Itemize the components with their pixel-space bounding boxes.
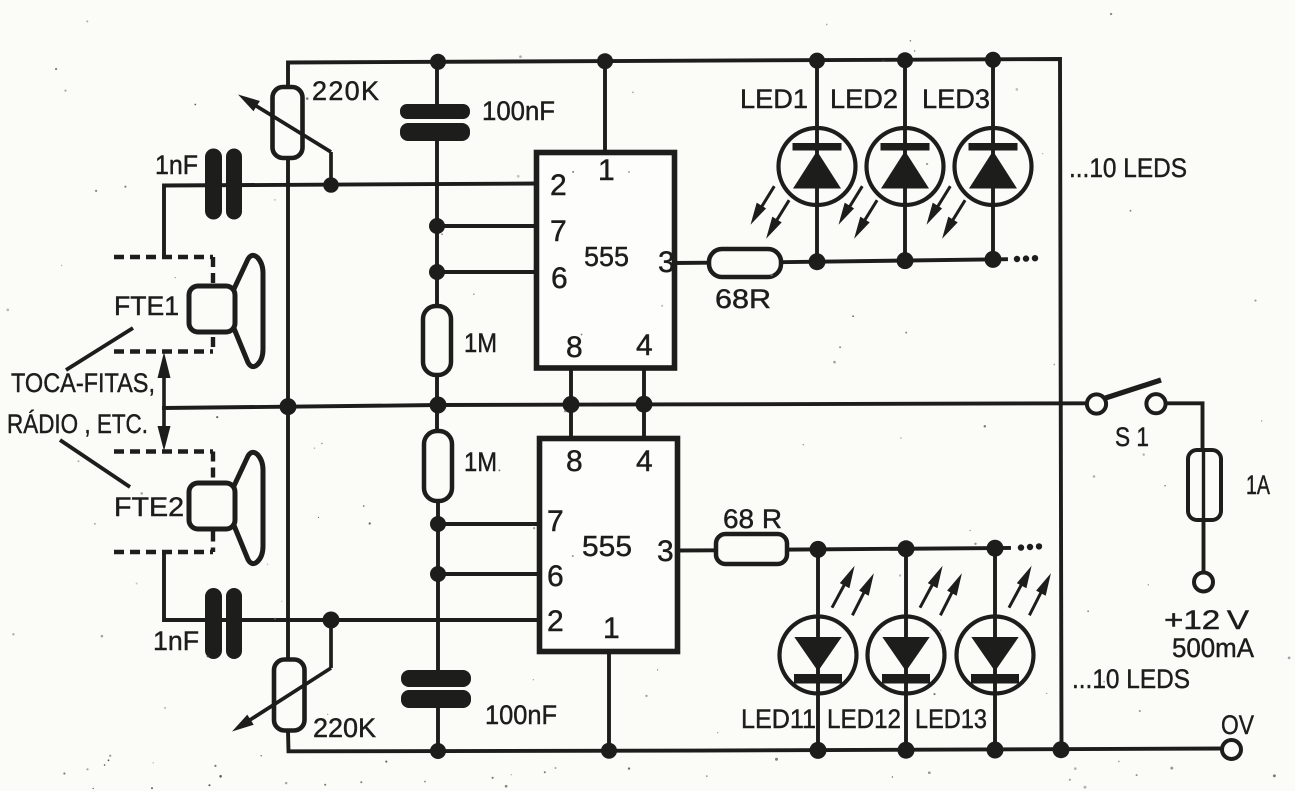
svg-text:100nF: 100nF (485, 700, 557, 730)
svg-text:555: 555 (582, 531, 632, 563)
svg-text:1A: 1A (1246, 470, 1270, 500)
svg-text:FTE2: FTE2 (114, 492, 184, 522)
svg-text:RÁDIO , ETC.: RÁDIO , ETC. (7, 409, 148, 439)
svg-text:8: 8 (566, 445, 583, 478)
svg-text:500mA: 500mA (1172, 633, 1254, 663)
svg-text:1nF: 1nF (153, 626, 199, 656)
svg-text:LED2: LED2 (830, 84, 898, 114)
svg-text:220K: 220K (312, 76, 379, 106)
svg-text:8: 8 (566, 331, 583, 364)
svg-text:100nF: 100nF (482, 96, 555, 126)
svg-text:7: 7 (550, 215, 567, 248)
svg-text:3: 3 (658, 246, 675, 279)
svg-text:LED1: LED1 (740, 84, 808, 114)
svg-text:3: 3 (657, 535, 674, 568)
svg-text:...10 LEDS: ...10 LEDS (1072, 664, 1190, 694)
svg-text:555: 555 (584, 241, 629, 272)
svg-text:68 R: 68 R (723, 504, 782, 534)
svg-text:220K: 220K (313, 713, 376, 743)
svg-text:S 1: S 1 (1115, 422, 1149, 452)
svg-text:1M: 1M (464, 328, 497, 358)
svg-text:1M: 1M (464, 447, 497, 477)
svg-text:6: 6 (551, 262, 568, 295)
svg-text:6: 6 (547, 560, 564, 593)
svg-text:1nF: 1nF (155, 150, 198, 180)
svg-text:LED12: LED12 (827, 704, 901, 734)
svg-text:FTE1: FTE1 (114, 291, 179, 321)
svg-text:LED11: LED11 (741, 704, 816, 734)
svg-text:TOCA-FITAS,: TOCA-FITAS, (11, 368, 155, 398)
svg-text:2: 2 (547, 605, 564, 638)
svg-text:2: 2 (550, 169, 567, 202)
svg-text:7: 7 (547, 505, 564, 538)
svg-text:...10 LEDS: ...10 LEDS (1069, 153, 1187, 183)
svg-text:LED13: LED13 (915, 704, 987, 734)
svg-text:68R: 68R (715, 284, 771, 314)
svg-text:1: 1 (603, 612, 620, 645)
svg-text:4: 4 (636, 445, 653, 478)
svg-text:+12 V: +12 V (1164, 605, 1249, 635)
svg-text:1: 1 (598, 154, 615, 187)
svg-text:4: 4 (636, 329, 653, 362)
svg-text:OV: OV (1221, 710, 1254, 740)
svg-text:LED3: LED3 (922, 84, 990, 114)
